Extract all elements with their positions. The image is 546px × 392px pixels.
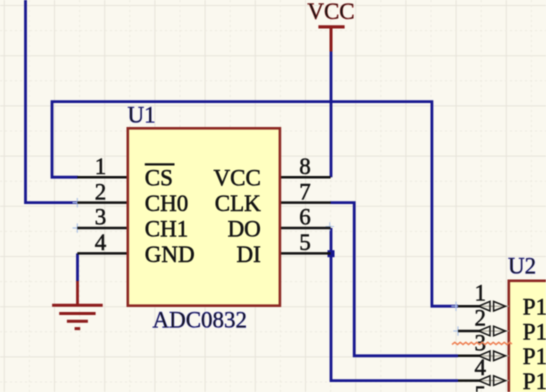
svg-text:VCC: VCC (307, 0, 354, 24)
svg-text:ADC0832: ADC0832 (153, 307, 248, 332)
svg-text:P1: P1 (523, 319, 546, 344)
svg-text:2: 2 (475, 306, 487, 331)
U1 pin 7 line (279, 201, 331, 204)
svg-text:DI: DI (237, 242, 261, 267)
wire net GND: from U1 pin 4 down to ground port (76, 253, 79, 281)
svg-text:GND: GND (145, 242, 195, 267)
svg-text:VCC: VCC (214, 166, 261, 191)
svg-text:U1: U1 (128, 103, 156, 128)
power port VCC bar symbol (318, 27, 344, 52)
U2 pin 3 line (458, 355, 481, 358)
wire net CLK: U1 pin 7 to U2 pin 3 (330, 203, 458, 356)
U1 pin 6 line (279, 227, 331, 230)
snap cross at U1 pin3 free end (73, 223, 83, 232)
svg-text:CLK: CLK (215, 191, 261, 216)
U2 pin 2 I/O symbol (479, 326, 509, 336)
snap cross at U2 pin1 wire end (451, 302, 460, 311)
svg-text:CH0: CH0 (145, 191, 188, 216)
snap cross at U1 pin2 wire end (73, 198, 83, 207)
wire net CS: U1 pin1 up, across top, down to U2 pin 1 (52, 102, 458, 307)
svg-text:5: 5 (475, 382, 487, 392)
svg-text:U2: U2 (508, 254, 536, 279)
wire net CH0: left vertical from top to U1 pin 2 (26, 0, 79, 203)
svg-text:2: 2 (95, 179, 107, 204)
svg-text:P1: P1 (523, 344, 546, 369)
svg-text:7: 7 (299, 179, 311, 204)
U2 pin 4 line (458, 379, 481, 382)
svg-text:CS: CS (145, 166, 173, 191)
svg-text:6: 6 (299, 205, 311, 230)
U2 pin 1 I/O symbol (479, 301, 509, 311)
U1 pin 2 line (77, 201, 128, 204)
svg-text:8: 8 (299, 154, 311, 179)
U1 pin 5 line (279, 252, 331, 255)
svg-text:1: 1 (95, 154, 107, 179)
wire net DO/DI: U1 pin 6 down through pin 5 junction to U2 pin 4 (331, 228, 458, 381)
U2 pin 4 I/O symbol (479, 376, 509, 386)
op-amp U1 body (ADC0832 IC) (128, 128, 280, 305)
svg-text:DO: DO (228, 216, 261, 241)
U1 pin 4 line (77, 252, 128, 255)
svg-text:4: 4 (475, 355, 487, 380)
U2 pin 2 line (458, 330, 481, 333)
U1 pin 1 line (77, 176, 128, 179)
svg-text:P1: P1 (523, 369, 546, 392)
svg-text:1: 1 (475, 281, 487, 306)
svg-text:P1: P1 (523, 295, 546, 320)
svg-text:3: 3 (95, 205, 107, 230)
transistor U2 body (MCU port) (509, 281, 546, 392)
U1 pin 8 line (279, 176, 331, 179)
svg-text:5: 5 (299, 230, 311, 255)
svg-text:CH1: CH1 (145, 216, 188, 241)
junction dot at DI pin 5 (328, 250, 335, 257)
snap cross at U2 pin2 free end (453, 326, 462, 335)
U1 pin 3 line (77, 227, 128, 230)
snap cross at U1 pin6 wire end (326, 222, 334, 230)
U2 pin 1 line (458, 305, 481, 308)
svg-text:4: 4 (95, 230, 107, 255)
wire net VCC: from power port down to U1 pin 8 (330, 52, 333, 178)
U2 pin 3 I/O symbol (479, 351, 509, 361)
error squiggle under U2 pin 3 (452, 342, 512, 344)
ground power port (52, 281, 103, 329)
